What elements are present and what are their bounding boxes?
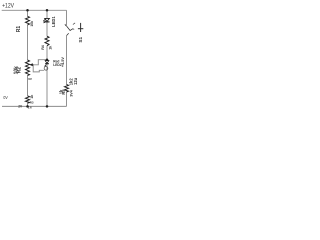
svg-text:+12V: +12V: [2, 2, 14, 9]
svg-text:3V4: 3V4: [70, 90, 74, 96]
wire middle branch LED2 to 0V: [46, 64, 48, 107]
wire left branch top: [27, 10, 29, 16]
svg-text:1k: 1k: [49, 46, 53, 50]
svg-text:10k: 10k: [30, 21, 34, 27]
wire middle branch top: [46, 10, 48, 18]
junction dot bottom rail left: [26, 105, 29, 108]
wire pot wiper to node: [33, 60, 47, 65]
wire right branch switch to R5: [66, 36, 68, 85]
svg-text:6V: 6V: [28, 77, 32, 81]
node junction dot R4/LED2/wiper: [46, 58, 49, 61]
svg-text:R2: R2: [16, 67, 22, 74]
transistor circle TR1: [44, 66, 48, 70]
svg-text:LED1: LED1: [51, 16, 56, 27]
svg-text:12u: 12u: [73, 77, 78, 85]
junction dot top rail left: [26, 9, 29, 12]
resistor R1: [26, 16, 30, 25]
LED LED1: [43, 18, 50, 23]
node +12V rail: [2, 9, 67, 11]
resistor R3: [26, 96, 30, 103]
wire middle branch LED1 to R4: [46, 22, 48, 36]
svg-text:0.6: 0.6: [28, 106, 32, 110]
junction dot bottom rail middle: [46, 105, 49, 108]
wire middle branch R4 to node: [46, 46, 48, 60]
svg-text:R1: R1: [16, 26, 22, 33]
svg-text:R3: R3: [30, 100, 34, 104]
wire pot wiper to base (lower path): [33, 65, 44, 72]
LED LED2: [44, 61, 49, 67]
svg-text:1k: 1k: [30, 95, 34, 99]
resistor R5: [65, 84, 69, 92]
svg-text:R4: R4: [41, 45, 45, 50]
svg-text:S1: S1: [78, 37, 83, 43]
svg-text:R5: R5: [61, 89, 66, 95]
potentiometer R2: [26, 60, 30, 76]
wire left branch bottom: [27, 76, 29, 107]
resistor R4: [45, 36, 49, 46]
svg-text:0V: 0V: [3, 95, 8, 100]
wire right branch top: [66, 10, 68, 26]
wire left branch middle: [27, 25, 29, 60]
wire right branch bottom: [66, 92, 68, 106]
potentiometer R2 wiper arrow: [31, 64, 34, 66]
svg-text:+4.5V: +4.5V: [61, 57, 65, 67]
junction dot top rail middle: [46, 9, 49, 12]
node 0V rail: [2, 105, 67, 107]
switch S1: [65, 23, 83, 36]
